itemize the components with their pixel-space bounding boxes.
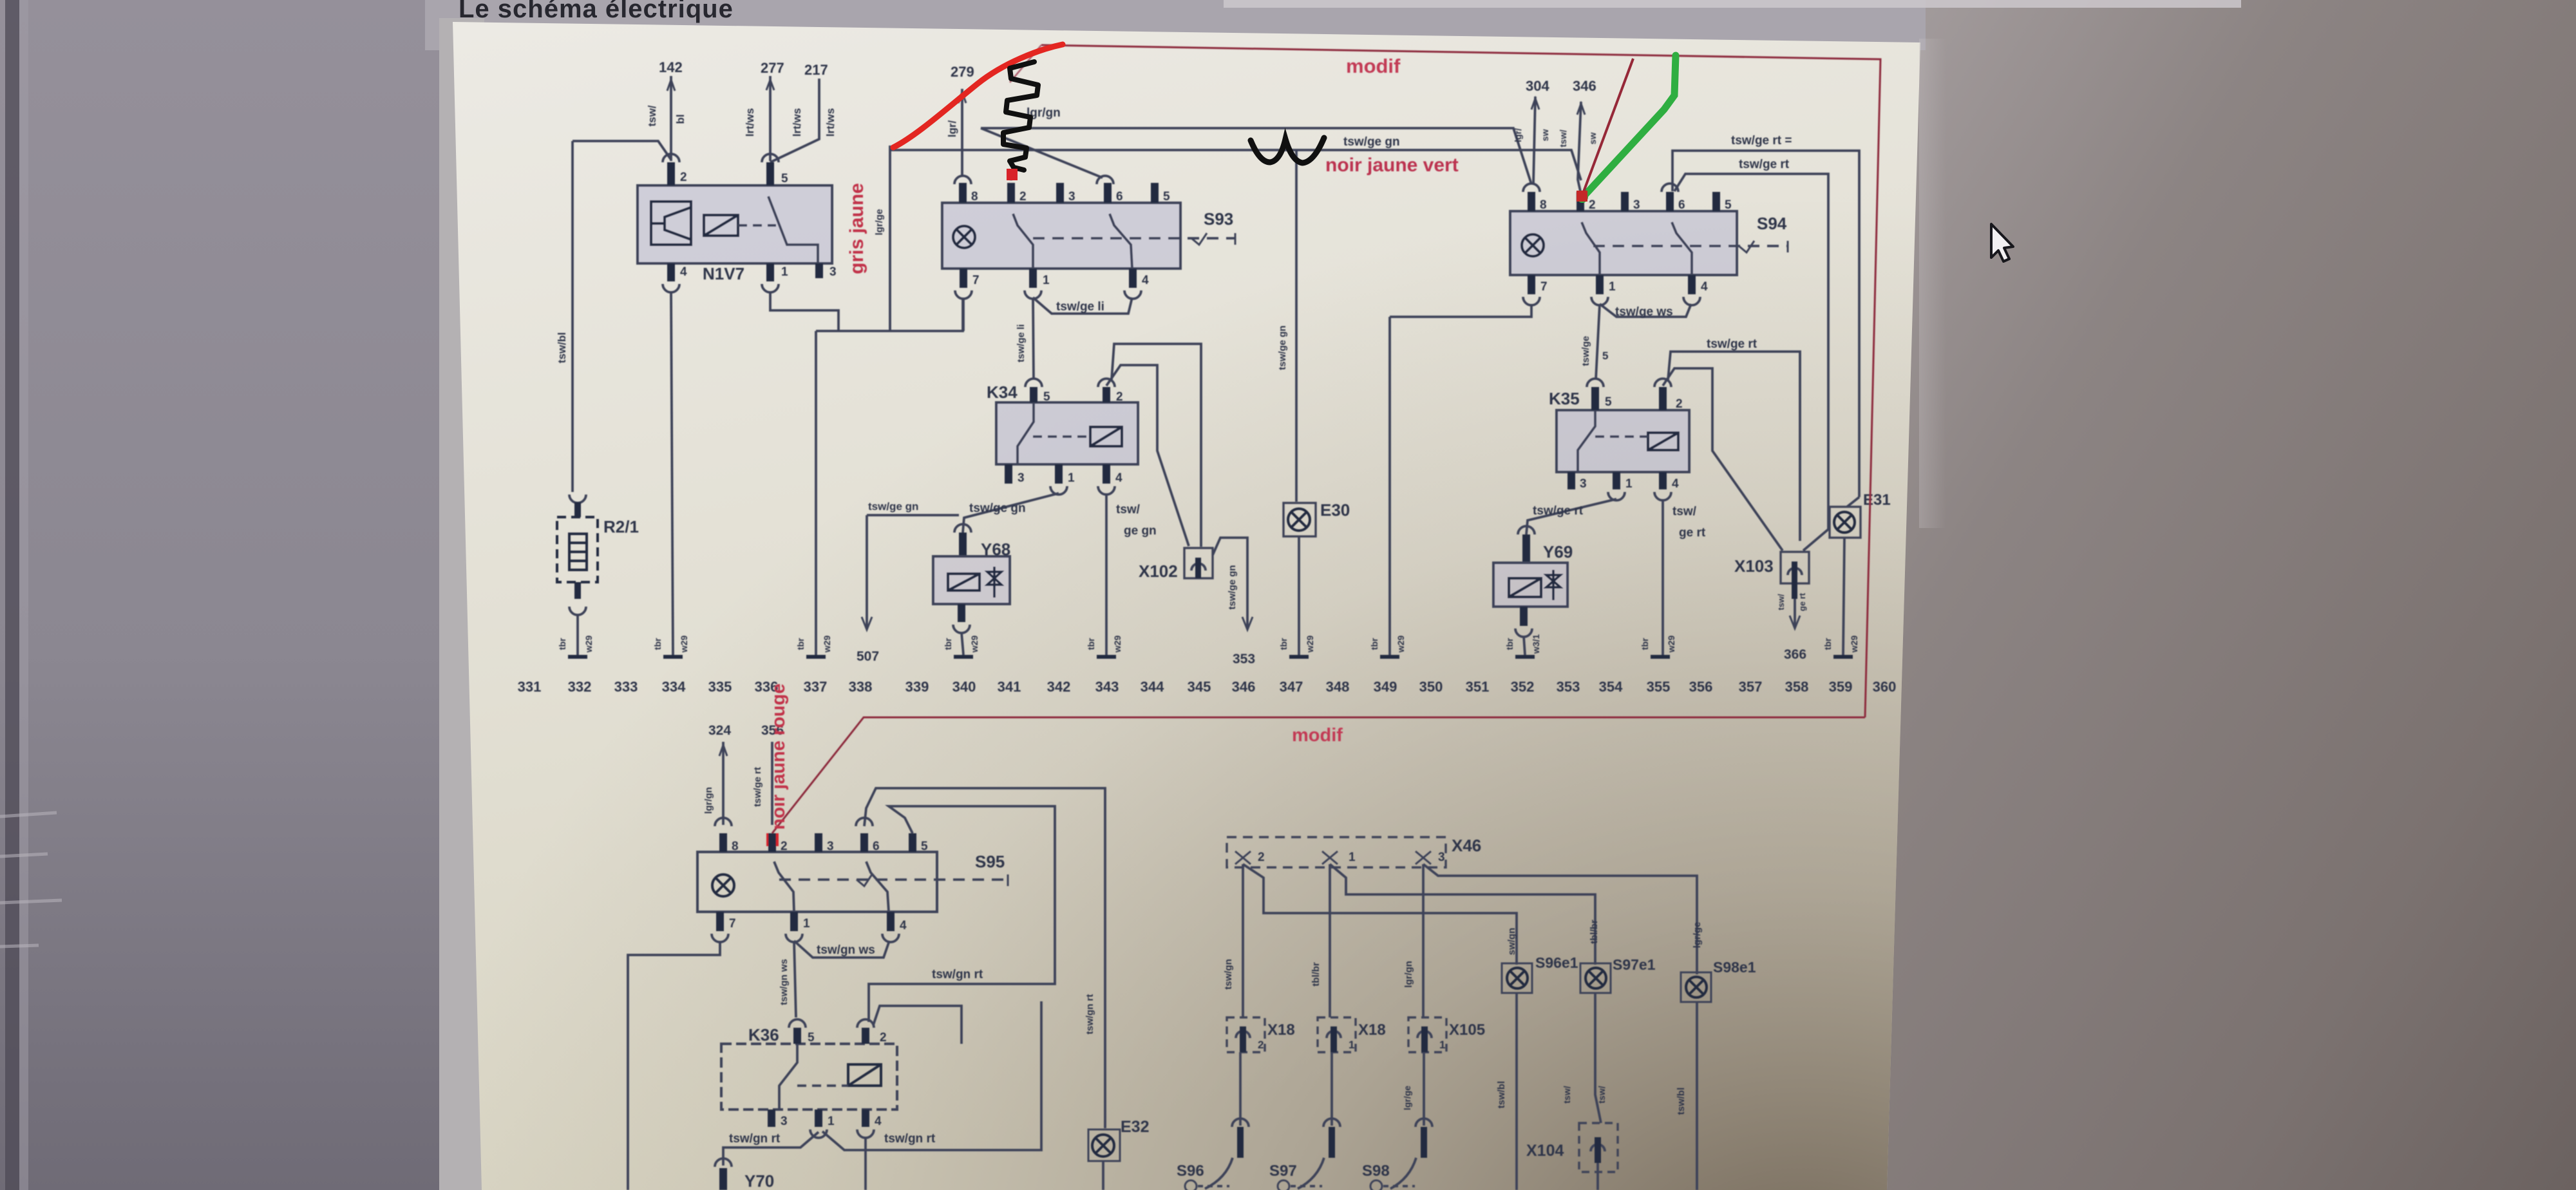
svg-text:2: 2: [1258, 851, 1265, 864]
relay K36: [721, 1044, 897, 1110]
svg-text:lrt/ws: lrt/ws: [744, 108, 756, 137]
svg-text:1: 1: [1349, 1039, 1354, 1051]
wire K36 pin4 down: [864, 1137, 867, 1190]
connector arc: [1323, 1119, 1340, 1127]
svg-text:351: 351: [1466, 679, 1490, 695]
switch contact S93 right: [1110, 214, 1132, 269]
valve symbol Y69: [1546, 570, 1560, 600]
relay coil K34: [1090, 427, 1122, 446]
connector arc: [1416, 1119, 1432, 1127]
pin stub: [1621, 192, 1629, 211]
relay K34: [996, 402, 1138, 464]
svg-text:Y69: Y69: [1543, 542, 1573, 562]
mouse cursor: [1991, 224, 2013, 261]
svg-text:ge rt: ge rt: [1797, 592, 1807, 611]
pin stub: [959, 183, 967, 203]
svg-text:6: 6: [1116, 190, 1123, 203]
wire: [1198, 1185, 1229, 1187]
switch block S93: [942, 203, 1180, 269]
svg-text:1: 1: [803, 917, 810, 930]
svg-text:w29: w29: [1112, 636, 1122, 654]
switch block S94: [1510, 211, 1737, 275]
svg-text:7: 7: [729, 917, 736, 930]
connector arc: [1327, 1031, 1341, 1038]
switch contact N1V7 pin5 to pin3: [768, 196, 818, 263]
wire outer loop S95 pin6 to E32: [864, 788, 1105, 1128]
svg-text:1: 1: [1068, 471, 1075, 485]
pin stub: [909, 833, 916, 852]
pin stub: [719, 833, 727, 852]
wire S93 pin7 down: [962, 297, 965, 331]
connector arc: [1591, 1144, 1605, 1151]
svg-text:5: 5: [781, 172, 788, 185]
svg-text:142: 142: [659, 59, 683, 75]
svg-text:w29: w29: [822, 636, 832, 654]
svg-text:tsw/ge gn: tsw/ge gn: [1277, 325, 1288, 370]
pin stub: [862, 1110, 869, 1127]
svg-text:358: 358: [1785, 679, 1809, 695]
wire Y69 to ground bar: [1524, 636, 1525, 655]
svg-text:tsw/ge gn: tsw/ge gn: [969, 502, 1026, 515]
svg-text:S96: S96: [1177, 1162, 1204, 1180]
lamp symbol: [1288, 509, 1310, 531]
wire into E31: [1847, 497, 1859, 507]
svg-text:K34: K34: [987, 382, 1018, 402]
pin stub: [960, 269, 967, 288]
svg-text:w29: w29: [1396, 636, 1406, 654]
ground bar 347: [1289, 655, 1309, 659]
svg-text:342: 342: [1047, 679, 1071, 695]
svg-text:5: 5: [808, 1031, 815, 1044]
pin stub: [1421, 1026, 1428, 1052]
pin stub: [1520, 607, 1528, 626]
pin 2 N1V7: [667, 162, 675, 185]
connector arc: [1788, 568, 1802, 575]
svg-text:K35: K35: [1549, 389, 1580, 408]
wire inner loop K35: [1663, 368, 1783, 551]
wire X46-1 down to X18: [1329, 864, 1331, 1017]
wire X46-2 to S96e1: [1243, 864, 1517, 965]
ground bar 350: [1380, 655, 1399, 659]
svg-text:4: 4: [1701, 280, 1708, 294]
svg-text:N1V7: N1V7: [703, 264, 744, 283]
svg-text:tsw/ge li: tsw/ge li: [1056, 300, 1104, 314]
wire stub above S93 pin 2: [1010, 176, 1012, 180]
svg-text:1: 1: [1609, 280, 1616, 294]
wire K34 pin4 to ground bar: [1105, 493, 1108, 655]
svg-text:5: 5: [1725, 198, 1732, 212]
svg-text:modif: modif: [1292, 725, 1343, 746]
pin stub: [1240, 1026, 1246, 1052]
connector above S95 pin 8: [715, 818, 732, 826]
pin stub: [1792, 583, 1797, 599]
coil Y69: [1509, 578, 1541, 597]
svg-text:w29: w29: [1305, 636, 1315, 654]
wire X46-3 down to X105: [1422, 864, 1425, 1017]
pin stub: [860, 833, 868, 852]
svg-text:Le schéma électrique: Le schéma électrique: [459, 0, 734, 23]
connector arc: [569, 495, 586, 503]
svg-text:217: 217: [804, 62, 828, 78]
wire 324 down to S95 pin 8: [722, 742, 724, 825]
ground bar 352: [1515, 655, 1535, 659]
switch contact S94 right: [1672, 222, 1692, 275]
svg-text:S98e1: S98e1: [1713, 959, 1756, 976]
svg-text:3: 3: [781, 1115, 788, 1128]
pin stub: [790, 912, 798, 931]
pin stub: [1129, 269, 1137, 288]
svg-text:3: 3: [1438, 851, 1445, 864]
pin stub: [959, 533, 967, 556]
connector arc: [1232, 1119, 1249, 1127]
switch contact S94 left: [1582, 222, 1600, 275]
wire top-left loop to pin 2: [573, 141, 671, 160]
wire Y68 to ground bar: [961, 632, 963, 655]
svg-text:343: 343: [1095, 679, 1119, 695]
svg-text:X104: X104: [1526, 1142, 1564, 1160]
svg-text:tsw/gn rt: tsw/gn rt: [884, 1132, 936, 1146]
svg-text:tsw/: tsw/: [1116, 503, 1141, 516]
svg-text:w29: w29: [1849, 636, 1859, 654]
wire: [1235, 851, 1251, 864]
dash end tick S93: [1235, 233, 1236, 245]
connector arc: [810, 1129, 827, 1138]
svg-text:K36: K36: [748, 1025, 779, 1044]
connector above S93 pin 8: [954, 176, 971, 184]
svg-text:S94: S94: [1757, 214, 1787, 233]
svg-text:sw: sw: [1587, 133, 1598, 145]
red dot on S93 pin 2: [1007, 169, 1018, 180]
indicator lamp in S93: [953, 226, 975, 248]
connector below K34 pin 4: [1098, 486, 1115, 495]
connector arc: [857, 1129, 874, 1138]
svg-text:339: 339: [905, 679, 929, 695]
pin stub: [815, 1110, 822, 1127]
wire stub right of K36 pin2: [873, 1006, 961, 1044]
connector below S93 pin 7: [955, 290, 972, 299]
arrowhead 324: [719, 745, 727, 756]
pin stub: [719, 1168, 727, 1190]
svg-text:tbr: tbr: [1504, 637, 1515, 650]
connector arc: [882, 934, 899, 942]
arrowhead 304: [1531, 99, 1539, 109]
red dot on S94 pin 2: [1577, 191, 1587, 202]
svg-text:8: 8: [971, 190, 978, 203]
svg-text:334: 334: [662, 679, 686, 695]
lamp symbol: [1686, 977, 1707, 997]
pin stub: [1596, 275, 1604, 294]
svg-text:Y70: Y70: [744, 1171, 774, 1190]
pin stub: [1595, 1137, 1601, 1163]
pin stub: [1688, 275, 1696, 294]
svg-text:354: 354: [1599, 679, 1623, 695]
pin stub: [1056, 183, 1064, 203]
svg-text:346: 346: [1232, 679, 1256, 695]
lamp symbol: [1507, 968, 1528, 988]
pin stub: [574, 502, 581, 517]
svg-text:5: 5: [1605, 395, 1612, 409]
svg-text:w29: w29: [1666, 636, 1676, 654]
svg-text:tsw/gn rt: tsw/gn rt: [1084, 994, 1095, 1035]
wire K34 pin1 to Y68: [963, 493, 1059, 533]
wire: [1322, 851, 1338, 864]
connector arc: [712, 934, 728, 942]
svg-text:1: 1: [828, 1115, 835, 1128]
svg-text:4: 4: [1142, 274, 1149, 287]
svg-text:tbr: tbr: [795, 637, 806, 650]
pin stub: [1792, 562, 1797, 583]
pin stub: [1577, 192, 1584, 211]
svg-text:2: 2: [1019, 190, 1027, 203]
svg-text:1: 1: [1349, 851, 1356, 864]
pin stub: [862, 1028, 869, 1044]
lamp S97e1: [1580, 963, 1611, 993]
relay coil N1V7: [704, 215, 738, 236]
wire N1V7 pin4 down to ground bar: [671, 292, 673, 655]
svg-text:2: 2: [1116, 390, 1123, 404]
dash end tick S95: [1007, 874, 1009, 886]
relay coil K36: [848, 1064, 881, 1086]
svg-text:bl: bl: [674, 114, 687, 124]
svg-text:332: 332: [568, 679, 592, 695]
svg-text:304: 304: [1526, 78, 1549, 94]
ground bar 343: [1097, 655, 1116, 659]
svg-text:lgr/ge: lgr/ge: [874, 209, 885, 236]
pin stub: [1005, 464, 1012, 484]
connector arc: [1518, 526, 1535, 534]
svg-text:3: 3: [827, 840, 834, 853]
clip above pin 5: [762, 154, 779, 162]
svg-text:2: 2: [1258, 1039, 1264, 1051]
red diagonal annotation to S94 pin 2: [1582, 59, 1633, 195]
svg-text:X18: X18: [1358, 1021, 1386, 1039]
svg-text:tsw/ge gn: tsw/ge gn: [868, 500, 918, 513]
wire E30 down to ground bar: [1298, 536, 1300, 655]
connector block X46: [1227, 837, 1446, 867]
svg-text:350: 350: [1419, 679, 1443, 695]
switch block S95: [697, 852, 937, 912]
coupling dashes N1V7: [738, 224, 776, 227]
pin stub: [887, 912, 895, 931]
svg-text:4: 4: [1672, 477, 1679, 491]
pin stub: [958, 604, 965, 622]
svg-text:5: 5: [1602, 350, 1608, 362]
svg-text:347: 347: [1280, 679, 1303, 695]
control module N1V7: [638, 185, 832, 263]
wire K36 pin1 to Y70: [723, 1132, 819, 1166]
svg-text:lgr/ge: lgr/ge: [1692, 922, 1703, 949]
svg-text:333: 333: [614, 679, 638, 695]
wire 142 down to N1V7 pin 2: [670, 76, 672, 161]
pin stub: [1528, 275, 1535, 294]
svg-text:1: 1: [1043, 274, 1050, 287]
svg-text:S93: S93: [1204, 209, 1233, 229]
pin stub: [1195, 558, 1201, 578]
svg-text:507: 507: [857, 649, 879, 664]
arrowhead 366: [1790, 616, 1800, 628]
ground bar 359: [1833, 655, 1853, 659]
freehand red curve annotation: [893, 44, 1063, 147]
connector arc: [1236, 1031, 1250, 1038]
wire: [1041, 45, 1880, 717]
svg-text:tsw/ge rt: tsw/ge rt: [1707, 337, 1757, 351]
svg-text:w3/1: w3/1: [1531, 634, 1541, 655]
svg-text:tbr: tbr: [652, 637, 663, 650]
connector arc: [1417, 1031, 1432, 1038]
ground bar 334: [663, 655, 683, 659]
pin 5 N1V7: [766, 162, 774, 185]
lamp E30: [1283, 503, 1316, 536]
svg-text:359: 359: [1829, 679, 1853, 695]
svg-text:8: 8: [732, 840, 739, 853]
svg-text:tsw/ge li: tsw/ge li: [1016, 324, 1027, 362]
pin stub: [1666, 192, 1674, 211]
relay coil K35: [1648, 433, 1678, 450]
svg-text:lgr/: lgr/: [1513, 128, 1523, 142]
clip above pin 2: [663, 154, 679, 162]
svg-text:344: 344: [1141, 679, 1164, 695]
svg-text:8: 8: [1540, 198, 1547, 212]
svg-text:sw/gn: sw/gn: [1506, 928, 1517, 956]
pin stub: [1103, 464, 1110, 484]
svg-text:S96e1: S96e1: [1535, 954, 1578, 971]
svg-text:7: 7: [972, 274, 980, 287]
wire outer loop into E31: [1672, 151, 1859, 497]
dash jog S95: [857, 874, 872, 886]
freehand green line annotation: [1584, 55, 1676, 196]
wire horizontal to Y68: [867, 514, 959, 516]
svg-text:345: 345: [1188, 679, 1211, 695]
svg-text:4: 4: [900, 919, 907, 932]
svg-text:1: 1: [1439, 1039, 1445, 1051]
arrowhead 507: [862, 617, 872, 630]
arrow head 142: [667, 80, 675, 91]
pin stub: [768, 1110, 775, 1127]
svg-text:tsw/gn rt: tsw/gn rt: [932, 968, 983, 981]
red mark on S95 pin 2: [766, 833, 779, 846]
connector arc: [1591, 297, 1608, 305]
wire drop to E30: [1295, 150, 1298, 502]
wire X102 to 353 arrow: [1213, 538, 1247, 628]
arrowhead 346: [1577, 104, 1585, 115]
connector arc: [953, 625, 970, 633]
connector above S93 pin 6: [1097, 176, 1113, 184]
connector arc: [1587, 379, 1604, 387]
wire N1V7 pin1 to junction: [770, 292, 838, 331]
wire diagonal to S93 pin 6: [981, 128, 1103, 178]
lamp S96e1: [1502, 963, 1532, 993]
svg-text:3: 3: [1580, 477, 1587, 491]
svg-text:E31: E31: [1863, 491, 1891, 509]
svg-text:R2/1: R2/1: [603, 517, 639, 536]
coupling dashes K35: [1595, 435, 1648, 438]
wire S95 pin7 left and down: [628, 941, 720, 1190]
wire S96e1 down: [1515, 993, 1518, 1190]
connector arc: [1683, 297, 1700, 305]
title bar strip: [425, 0, 1926, 50]
coupling dashed line S95: [779, 878, 1008, 881]
svg-text:S95: S95: [975, 852, 1005, 871]
svg-text:1: 1: [781, 265, 788, 279]
svg-text:tsw/: tsw/: [1596, 1086, 1607, 1103]
pin stub: [1331, 1026, 1337, 1052]
light margin strip left of page: [439, 18, 484, 1190]
wire noir jaune vert horizontal: [889, 150, 1581, 180]
svg-text:tsw/ge gn: tsw/ge gn: [1227, 565, 1238, 609]
wire down to S98: [1423, 1052, 1425, 1126]
pin stub: [1104, 183, 1112, 203]
glare strip at very top right: [1224, 0, 2241, 8]
svg-text:360: 360: [1873, 679, 1897, 695]
svg-text:S98: S98: [1362, 1162, 1390, 1180]
connector X18: [1318, 1017, 1356, 1052]
svg-text:353: 353: [1233, 652, 1255, 666]
ground bar 332: [568, 655, 587, 659]
svg-text:tsw/ge gn: tsw/ge gn: [1343, 135, 1400, 149]
desktop gray right of page: [1868, 0, 2576, 1190]
svg-text:tsw/gn ws: tsw/gn ws: [817, 943, 875, 957]
pin 3 N1V7: [815, 263, 823, 278]
switch contact S93 left: [1013, 214, 1033, 269]
svg-text:tsw/ge ws: tsw/ge ws: [1615, 305, 1673, 319]
svg-text:lrt/ws: lrt/ws: [791, 108, 803, 137]
pin stub: [1712, 192, 1720, 211]
connector below pin 1: [762, 284, 779, 292]
svg-text:tsw/ge rt =: tsw/ge rt =: [1731, 134, 1792, 147]
wire outer loop K35 to X103: [1668, 352, 1800, 541]
svg-text:tsw/ge rt: tsw/ge rt: [1533, 504, 1584, 518]
svg-text:tbr: tbr: [1369, 637, 1379, 650]
wire tsw/ge li loop pins 1-4: [1033, 297, 1132, 314]
wire 346 down to S94 pin 2: [1578, 102, 1582, 197]
wire E31 down to ground bar: [1843, 538, 1844, 655]
wire R2/1 to ground bar: [576, 614, 579, 655]
wire E32 down: [1102, 1161, 1104, 1190]
freehand black w zigzag on noir jaune vert wire: [1251, 138, 1324, 163]
svg-text:tsw/gn: tsw/gn: [1223, 959, 1234, 990]
svg-text:X46: X46: [1452, 836, 1481, 855]
connector arc: [1523, 297, 1540, 305]
svg-text:3: 3: [1018, 471, 1025, 485]
svg-text:lgr/gn: lgr/gn: [1403, 961, 1414, 988]
wire inner loop S95 pin5 to K36 pin2: [869, 806, 1055, 1022]
connector above K34 pin 2: [1098, 379, 1115, 387]
wire X103 down arrow 366: [1794, 599, 1796, 626]
svg-text:1: 1: [1625, 477, 1633, 491]
ground bar 340: [954, 655, 973, 659]
svg-text:lgr/: lgr/: [946, 120, 958, 138]
svg-text:352: 352: [1511, 679, 1535, 695]
connector arc: [1654, 379, 1671, 387]
pin stub: [1591, 387, 1599, 410]
svg-text:337: 337: [804, 679, 828, 695]
valve symbol Y68: [987, 567, 1001, 598]
svg-text:gris jaune: gris jaune: [846, 183, 867, 274]
wire outer loop K34 to X102: [1112, 344, 1201, 547]
svg-text:5: 5: [921, 840, 928, 853]
svg-text:tsw/: tsw/: [1672, 505, 1697, 518]
freehand black zigzag on lgr/gn wire: [1003, 62, 1038, 170]
wire S93 pin1 down to K34: [1033, 297, 1034, 379]
wire tsw/ge gn top feed: [981, 128, 1531, 184]
connector below pin 4: [663, 284, 679, 292]
pin stub: [574, 582, 581, 599]
svg-text:tsw/bl: tsw/bl: [556, 332, 568, 363]
ground bar 337: [806, 655, 826, 659]
desktop gray left of page: [0, 0, 489, 1190]
svg-text:357: 357: [1739, 679, 1763, 695]
svg-text:tsw/ge rt: tsw/ge rt: [1739, 158, 1790, 171]
